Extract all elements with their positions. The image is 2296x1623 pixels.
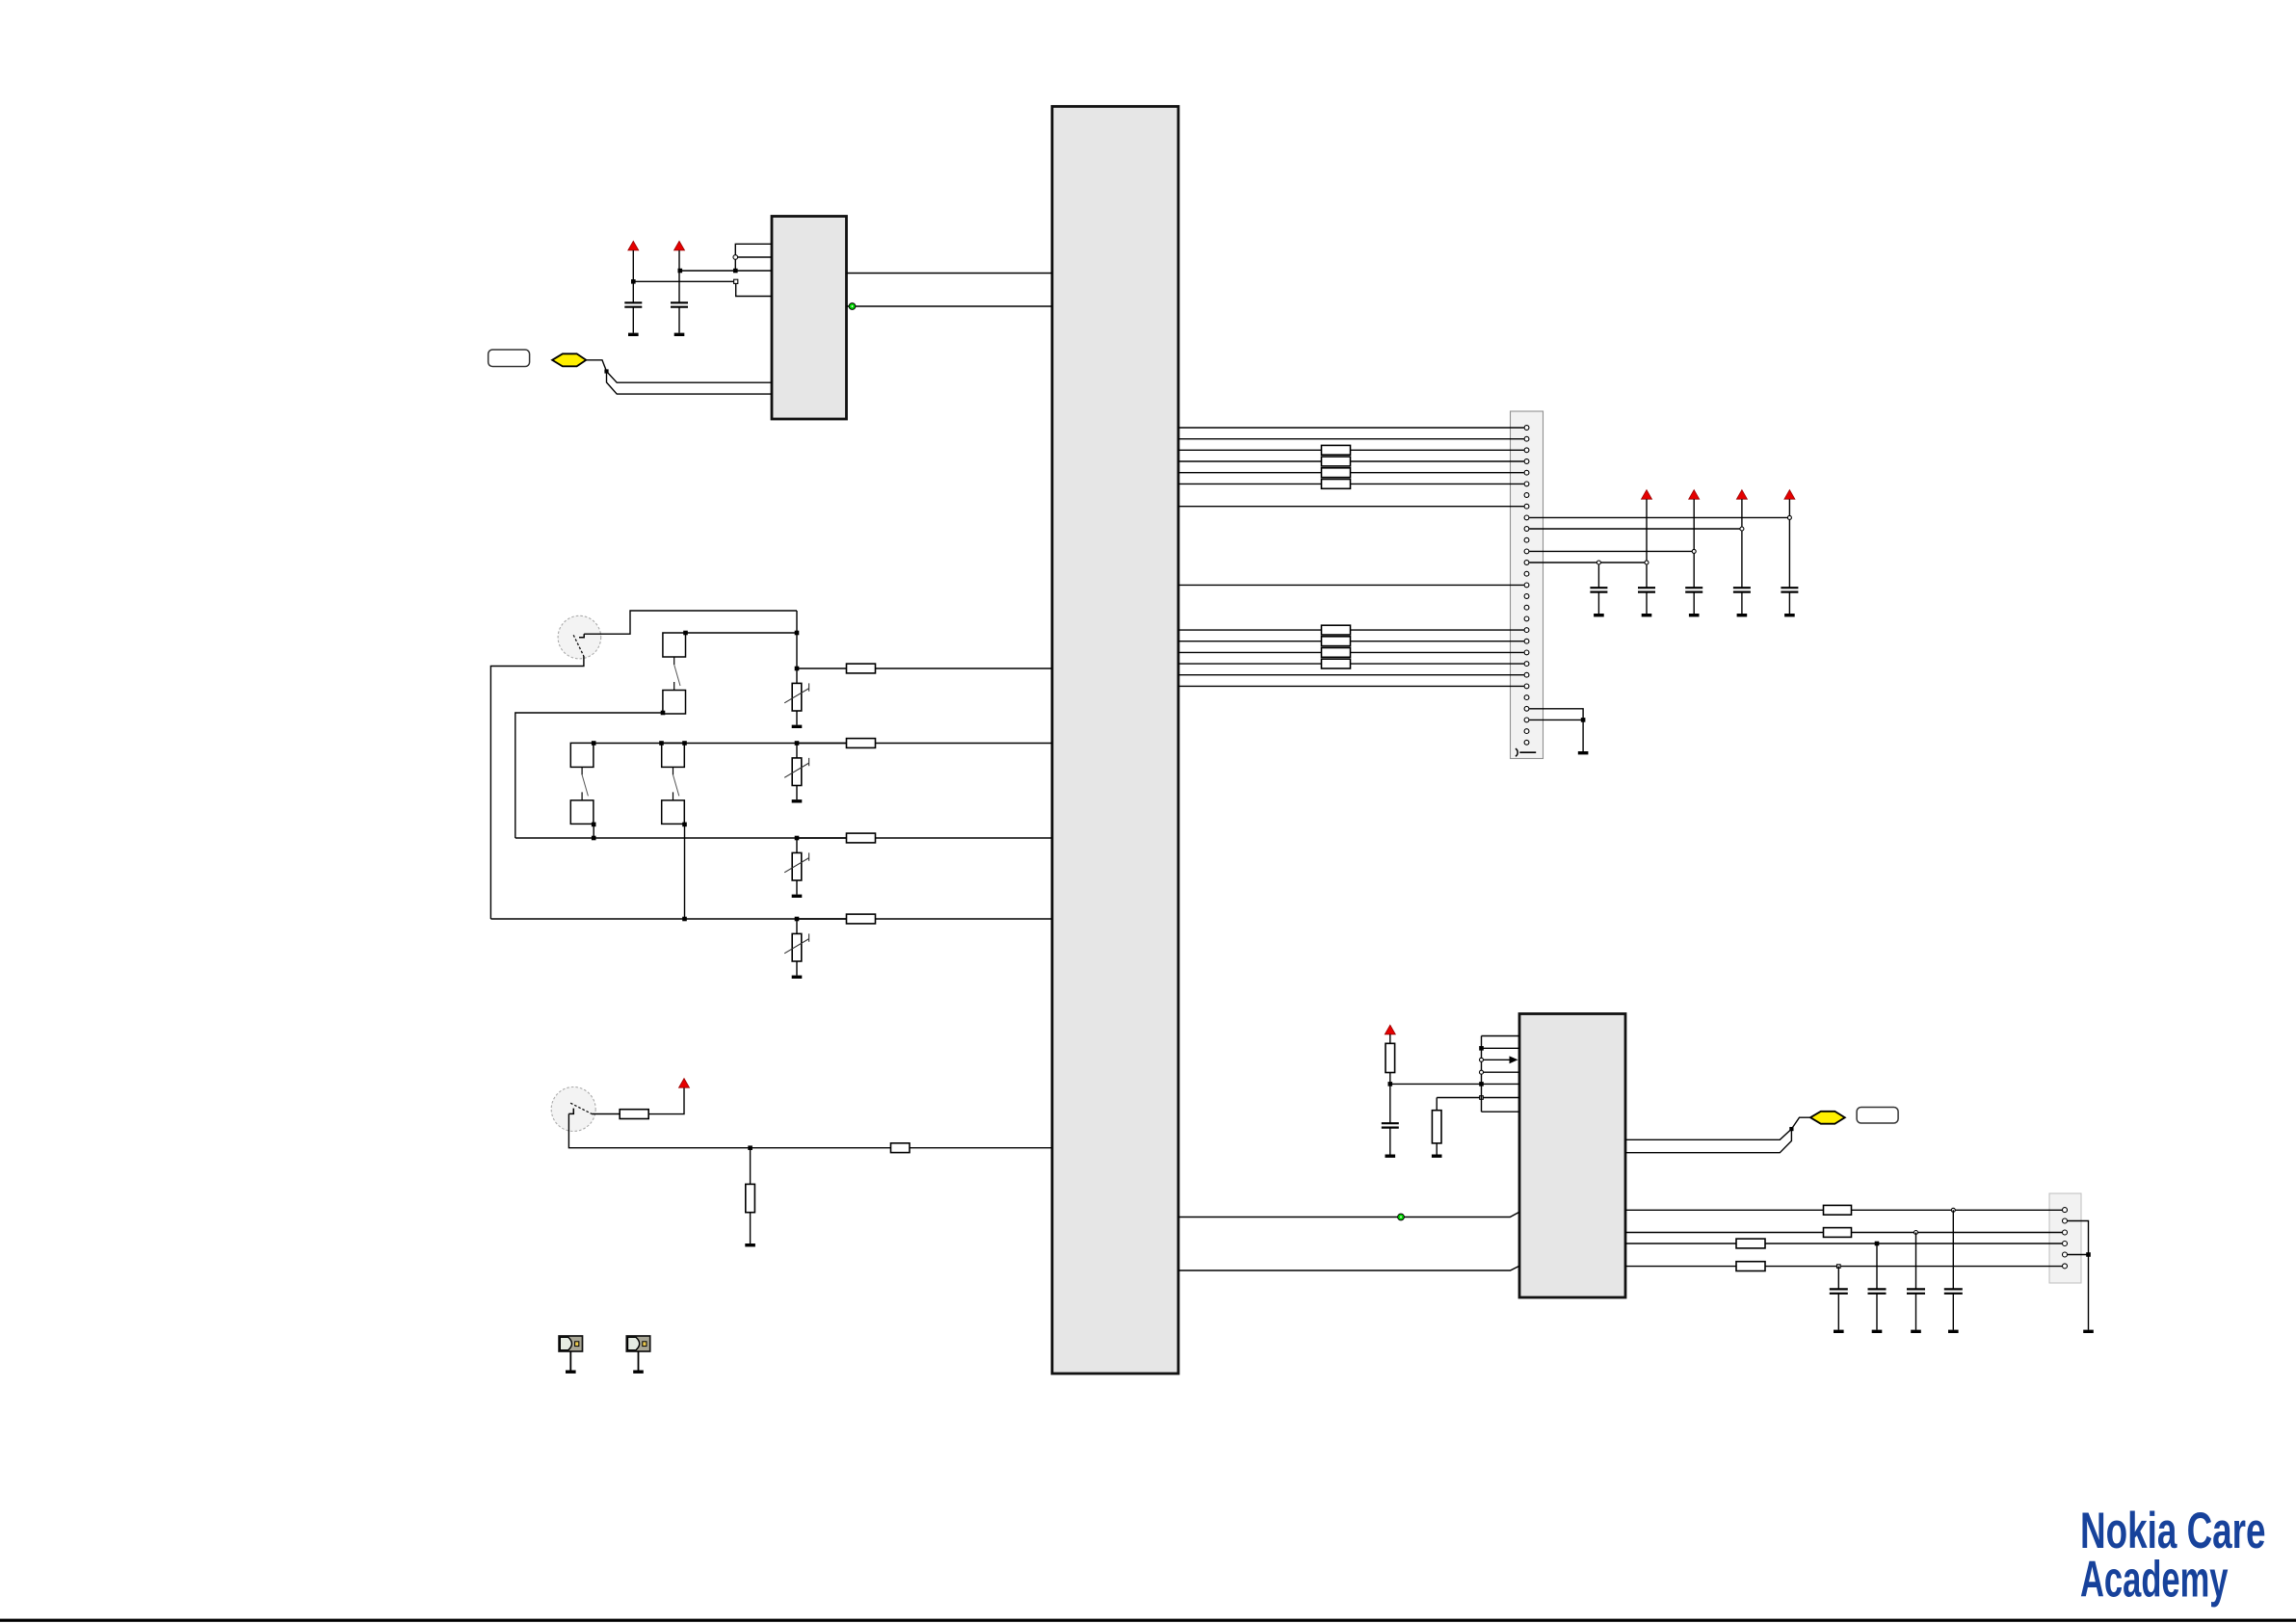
varistor Z1 [784,668,808,728]
connector X2 (headset jack) [2049,1193,2081,1283]
wire to C11 [1915,1233,1917,1290]
pin 27 X1 [1524,718,1529,722]
wire rail stem [1693,499,1695,588]
ground C10 [1872,1330,1883,1333]
wire U1 to X1 via resistor [1178,651,1524,653]
pin 26 X1 [1524,706,1529,711]
power arrow VDD2 [674,241,685,250]
wire U1 to X1 via resistor [1178,629,1524,631]
pin 1 X1 [1524,426,1529,431]
wire R9 to ground [1436,1143,1438,1155]
capacitor C12 [1944,1289,1963,1293]
resistor R2 [847,739,876,748]
resistor R8 [1386,1043,1395,1072]
wire U3 pin2 [1482,1047,1520,1049]
pin 6 X2 [2063,1264,2068,1269]
wire antenna2 feed [1791,1117,1811,1129]
ground C5 [1689,614,1700,616]
wire cap to ground [1693,592,1695,614]
junction X2 gnd [2086,1252,2091,1257]
capacitor C6 [1733,588,1751,591]
wire keyrow1 to resistor [797,668,847,669]
pin 23 X1 [1524,672,1529,677]
pin 7 X1 [1524,493,1529,498]
junction row D cap [1837,1265,1841,1269]
pin 24 X1 [1524,684,1529,689]
capacitor C7 [1781,588,1798,591]
wire U1 to U3 data [1178,1212,1519,1217]
junction SW1 bottom [661,711,666,716]
wire U1 to X1 [1178,674,1524,676]
wire pullup to U3 [1390,1083,1519,1085]
pin 20 X1 [1524,639,1529,643]
ground C11 [1911,1330,1921,1333]
junction keyrow4 [795,917,800,922]
connector X1 (display) [1511,411,1544,759]
varistor Z4 [784,919,808,979]
resistor R5 [620,1110,648,1119]
ground C8 [1386,1155,1396,1158]
wire U3 pin1 [1482,1035,1520,1037]
ground C6 [1737,614,1748,616]
pin 16 X1 [1524,594,1529,599]
capacitor C2 [671,302,688,306]
pin 6 X1 [1524,482,1529,486]
junction row B cap [1914,1231,1918,1235]
pin 11 X1 [1524,537,1529,542]
wire row4 [490,918,846,920]
wire cap to ground [1837,1294,1839,1330]
resistor R1 [847,664,876,673]
wire S1 bottom return [490,656,584,919]
power arrow display rail [1642,490,1652,500]
resistor R (display line) [1322,480,1351,489]
wire X1 to VDD rail c [1529,528,1742,530]
pin 28 X1 [1524,729,1529,734]
ground R7 [745,1243,755,1246]
wire U2 to U1 a [847,273,1053,275]
wire col1 vertical [796,611,798,668]
resistor R6 [891,1143,910,1153]
wire U2 pin1 L-shape [735,244,772,271]
wire keyrow3 to U1 [876,837,1053,839]
wire C3 stem [1597,563,1599,588]
pin 18 X1 [1524,616,1529,621]
pin marker pin4 [734,279,738,283]
junction pin1/pin3 [733,269,738,274]
net marker green [849,303,856,310]
wire cap to ground [1876,1294,1878,1330]
power arrow VDD1 [628,241,639,250]
label box (blank) [488,350,530,367]
junction antenna [604,369,608,373]
junction antenna2 [1789,1127,1793,1131]
wire arrow to R8 [1389,1034,1391,1044]
resistor R13 [1736,1262,1765,1271]
wire mic line [568,1113,890,1147]
svg-text:Academy: Academy [2080,1552,2229,1609]
wire to C10 [1876,1243,1878,1289]
pin marker pin2 [733,255,738,260]
wire rail stem [1741,499,1743,588]
wire X1 to VDD rail a [1529,562,1647,563]
IC U2 RF block [772,217,847,420]
pin 13 X1 [1524,561,1529,565]
pin 9 X1 [1524,515,1529,520]
wire to C12 [1952,1210,1954,1289]
wire U1 to X1 via resistor [1178,663,1524,665]
pin 29 X1 [1524,740,1529,745]
wire C8 to ground [1389,1128,1391,1155]
junction row3/SW2 [592,836,596,841]
wire SW2 bottom stub [593,825,594,838]
wire U3 pin4 [1482,1071,1520,1073]
pin 15 X1 [1524,583,1529,588]
pin 25 X1 [1524,695,1529,700]
wire keyrow3 to resistor [797,837,847,839]
pin 14 X1 [1524,571,1529,576]
junction mic divider [748,1145,752,1150]
wire rail stem [1646,499,1648,588]
pin 5 X1 [1524,470,1529,475]
junction SW3 top-right [682,741,687,746]
resistor R9 [1432,1111,1441,1143]
pin 12 X1 [1524,549,1529,554]
wire U1 to X1 [1178,685,1524,687]
pin 19 X1 [1524,628,1529,633]
wire to C9 [1837,1267,1839,1290]
wire U1 to X1 [1178,438,1524,440]
resistor R4 [847,914,876,924]
wire antenna branch b [607,372,773,395]
wire U1 to X1 via resistor [1178,472,1524,474]
wire cap to ground [1646,592,1648,614]
ground C7 [1784,614,1795,616]
junction SW3 top-left [659,741,664,746]
pin 22 X1 [1524,662,1529,667]
IC U1 main baseband block [1052,107,1178,1374]
wire U3 bus vertical [1481,1036,1483,1113]
junction bus tap 3 [1480,1058,1484,1061]
pin 10 X1 [1524,527,1529,532]
wire U1 to X1 via resistor [1178,483,1524,484]
wire S1 to col1 top [584,611,797,634]
junction VDD1/pin4 [631,279,636,284]
junction bus tap 2 [1479,1046,1484,1051]
resistor R (display line) [1322,637,1351,646]
capacitor C1 [624,302,642,306]
capacitor C8 [1382,1123,1399,1127]
wire U1 to X1 [1178,584,1524,586]
capacitor C5 [1685,588,1702,591]
wire antenna2 branch b [1625,1129,1791,1153]
junction row C cap [1875,1242,1880,1246]
wire U1 to U3 clock [1178,1266,1519,1270]
dome switch SW1 [663,633,686,714]
junction VDD2/pin3 [678,269,683,274]
wire cap to ground [1915,1294,1917,1330]
junction row1/col1 [795,631,800,636]
resistor R7 [746,1184,755,1212]
capacitor C10 [1868,1289,1887,1293]
ground C2 [674,333,685,336]
wire row C [1625,1243,2062,1244]
pin 5 X2 [2063,1252,2068,1257]
resistor R (display line) [1322,457,1351,466]
resistor R (display line) [1322,659,1351,668]
wire X2 gnd b [2068,1254,2089,1256]
junction gnd pins [1581,718,1586,722]
pin 17 X1 [1524,605,1529,610]
wire VDD1 stem [632,250,634,303]
junction SW3 bottom [682,823,687,827]
wire U2 to U1 b [847,305,1053,307]
capacitor C11 [1907,1289,1925,1293]
power arrow display rail [1736,490,1747,500]
wire U2 pin5 [736,283,772,296]
pin 8 X1 [1524,504,1529,509]
dome switch SW2 [570,743,594,824]
junction C3 tap [1597,561,1600,564]
arrowhead U3 pin3 [1510,1056,1518,1063]
wire row D [1625,1266,2062,1268]
wire keyrow4 to resistor [797,918,847,920]
wire row3 [515,837,847,839]
wire row2 [594,743,846,745]
wire U1 to X1 [1178,427,1524,429]
pin 3 X2 [2063,1230,2068,1235]
capacitor C3 [1590,588,1607,591]
resistor R (display line) [1322,445,1351,455]
switch S1 (power key) [558,615,601,659]
wire C1 to ground [632,307,634,333]
junction row4/SW3 [682,917,687,922]
wire X1 to VDD rail b [1529,550,1694,552]
junction keyrow3 [795,836,800,841]
wire mic to U1 [910,1147,1052,1149]
ground X2 [2083,1330,2094,1333]
wire U1 to X1 via resistor [1178,460,1524,462]
capacitor C4 [1638,588,1655,591]
wire U3 pin3 [1482,1059,1511,1060]
wire U2 pin4 [633,280,733,282]
wire cap to ground [1788,592,1790,614]
junction R8/C8 [1388,1082,1393,1086]
pin 3 X1 [1524,448,1529,453]
ground C1 [628,333,639,336]
wire U2 pin2 [738,256,772,258]
ground X1 pins [1578,751,1589,754]
wire C2 to ground [678,307,680,333]
power arrow U3 [1385,1025,1395,1034]
wire keyrow1 to U1 [876,668,1053,669]
varistor Z3 [784,838,808,898]
junction rail b [1692,549,1696,553]
junction rail a [1645,561,1649,564]
wire U1 to X1 via resistor [1178,449,1524,451]
capacitor C9 [1830,1289,1848,1293]
wire row B [1625,1232,2062,1234]
wire to R7 [750,1148,752,1185]
junction bus tap 4 [1480,1070,1484,1074]
ground R9 [1432,1155,1442,1158]
wire rail stem [1788,499,1790,588]
resistor R12 [1736,1239,1765,1248]
wire R8 to C8 [1389,1073,1391,1124]
junction keyrow1 [795,667,800,671]
resistor R (display line) [1322,625,1351,635]
antenna net flag Y2 [1810,1112,1845,1124]
wire to ground [1582,720,1584,751]
junction SW2 bottom [592,823,596,827]
wire X1 gnd pin b [1529,719,1583,720]
wire antenna feed [586,360,606,372]
pin 2 X2 [2063,1218,2068,1223]
ground C3 [1594,614,1604,616]
resistor R (display line) [1322,468,1351,478]
wire X1 to VDD rail d [1529,516,1789,518]
buzzer B2 [626,1336,649,1374]
bottom frame bar [0,1619,2296,1622]
antenna net flag Y1 [552,353,586,366]
wire SW3 bottom column [684,825,686,919]
wire R7 to ground [750,1213,752,1243]
wire X1 gnd pin a [1529,709,1583,720]
wire keyrow2 to resistor [797,743,847,745]
ground C4 [1642,614,1652,616]
wire R9 to U3 [1437,1098,1519,1111]
wire SW1 bottom return [515,713,663,838]
junction SW2 top [592,741,596,746]
pin 4 X2 [2063,1242,2068,1246]
wire antenna2 branch a [1625,1129,1791,1139]
IC U3 bluetooth/FM block [1519,1014,1625,1298]
wire row1 to switch [686,632,798,634]
pin 21 X1 [1524,650,1529,655]
dome switch SW3 [662,743,685,824]
wire antenna branch a [607,372,773,383]
label box 2 (blank) [1857,1108,1898,1124]
wire keyrow4 to U1 [876,918,1053,920]
wire U1 to X1 [1178,506,1524,508]
junction rail d [1787,515,1791,519]
resistor R3 [847,833,876,843]
wire cap to ground [1952,1294,1954,1330]
junction row A cap [1951,1208,1955,1212]
pin 1 X2 [2063,1208,2068,1213]
wire cap to ground [1741,592,1743,614]
junction bus tap 6 [1480,1096,1484,1100]
junction bus tap 5 [1479,1082,1484,1086]
wire keyrow2 to U1 [876,743,1053,745]
power arrow mic bias [679,1079,690,1088]
resistor R10 [1824,1205,1852,1215]
pin 4 X1 [1524,459,1529,464]
wire R5 to power [648,1087,684,1113]
wire U2 pin3 [680,270,772,272]
wire U3 pin7 [1482,1111,1520,1113]
wire VDD2 stem [678,250,680,303]
ground C9 [1834,1330,1844,1333]
wire cap to ground [1597,592,1599,614]
resistor R (display line) [1322,648,1351,658]
junction rail c [1740,527,1744,531]
wire row A [1625,1209,2062,1211]
junction keyrow2 [795,741,800,746]
connector X1 shield pin [1516,748,1517,756]
junction SW1 top [683,631,688,636]
buzzer B1 [559,1336,582,1374]
wire S2 to R5 [592,1113,620,1115]
power arrow display rail [1784,490,1795,500]
net marker green 2 [1398,1214,1405,1220]
pin 2 X1 [1524,436,1529,441]
switch S2 (headset hook) [551,1087,595,1132]
ground C12 [1948,1330,1959,1333]
resistor R11 [1824,1228,1852,1238]
wire X2 gnd a [2068,1221,2089,1330]
wire U1 to X1 via resistor [1178,641,1524,642]
power arrow display rail [1689,490,1700,500]
varistor Z2 [784,744,808,803]
